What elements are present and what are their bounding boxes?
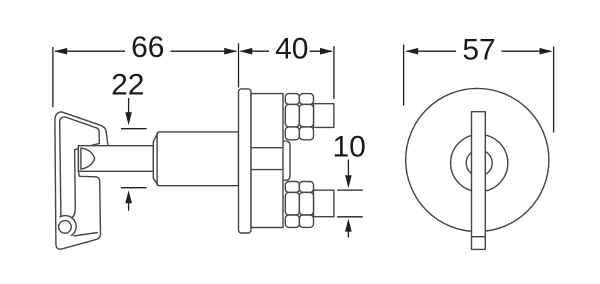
dimension 40 extension line left (above flange) [238,43,240,87]
key bow hole [59,221,72,234]
key bow inner groove upper loop [60,117,100,218]
dimension 40 line [239,48,333,55]
dimension 57 line [405,48,552,55]
svg-text:57: 57 [462,33,495,66]
dimension 22 arrow down [121,98,147,211]
dimension 66 line [54,48,237,55]
center hub nose [283,141,290,180]
switch barrel cylinder [153,132,238,186]
terminal stud upper [314,104,334,128]
hex nut upper pair [285,94,313,140]
key bar foot line [472,236,486,238]
key bow outer outline [55,112,108,249]
front view middle circle [451,134,508,191]
hex nut lower pair [285,182,313,228]
front view inner circle [466,150,492,176]
dimension 10 arrows [337,160,363,238]
terminal stud lower [314,190,334,217]
body mid line lower [251,169,283,171]
dimension 57 extension line right [553,47,555,133]
svg-text:66: 66 [131,31,164,64]
front view outer circle [406,88,549,231]
svg-text:10: 10 [333,130,366,163]
svg-text:40: 40 [275,32,308,65]
key tip bullet [81,148,95,169]
key bow inner groove bottom line [74,233,98,236]
key shaft [78,146,153,172]
dimension 40 extension line right [333,46,335,99]
svg-text:22: 22 [111,68,144,101]
barrel end cap line [156,132,158,185]
switch body [251,94,283,228]
key bow hole surround arc [60,216,77,236]
mounting flange [239,89,252,233]
dimension 66 extension line left [52,47,54,107]
dimension 57 extension line left [403,45,405,106]
body mid line upper [251,147,283,149]
front view key bar [472,112,486,250]
